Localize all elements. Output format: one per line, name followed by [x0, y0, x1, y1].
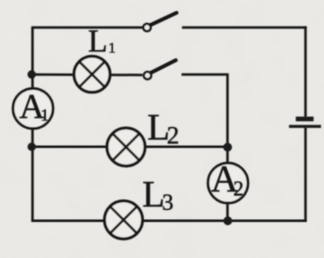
wire: left vertical bus: [31, 28, 34, 221]
lamp L2: [107, 128, 145, 166]
junction node: L2 branch / left bus: [28, 143, 36, 151]
lamp L3: [105, 201, 143, 239]
switch S1 pivot: [143, 24, 150, 31]
wire: bottom bus: [31, 220, 306, 223]
battery cell: short thick negative plate: [296, 117, 314, 122]
ammeter A2: [208, 163, 248, 203]
wire: switch S2 output to mid vertical drop: [182, 75, 228, 148]
switch S1 lever: [151, 13, 177, 25]
switch S2 lever: [151, 60, 176, 72]
wire: top segment right of switch S1: [182, 26, 307, 29]
wire: L1 branch: [33, 73, 143, 76]
svg-text:3: 3: [162, 190, 174, 215]
wire: A2 branch vertical: [226, 147, 229, 221]
wire: L2 branch: [33, 146, 228, 149]
wire: top segment left of switch S1: [31, 26, 142, 29]
svg-text:2: 2: [167, 122, 180, 149]
battery cell: long thin positive plate: [289, 125, 321, 128]
svg-text:2: 2: [233, 176, 244, 200]
junction node: A2 bottom / bottom bus: [223, 216, 232, 225]
junction node: L1 branch / left bus: [28, 70, 36, 78]
svg-text:1: 1: [108, 41, 116, 57]
switch S2 pivot: [144, 72, 151, 79]
svg-text:1: 1: [41, 106, 50, 125]
lamp L1: [74, 56, 110, 92]
junction node: L2 / A2 top: [223, 143, 232, 152]
svg-text:L: L: [88, 23, 108, 59]
ammeter A1: [13, 89, 53, 129]
wire: right vertical below battery: [304, 128, 307, 222]
wire: right vertical above battery: [304, 26, 307, 116]
